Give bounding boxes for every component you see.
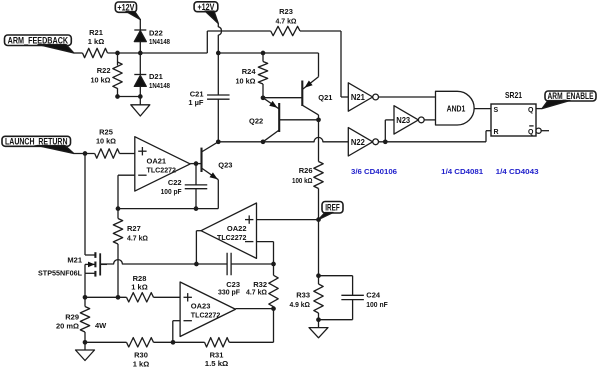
capacitor C23 — [226, 253, 228, 276]
svg-text:4.7 kΩ: 4.7 kΩ — [127, 234, 148, 243]
svg-text:Q23: Q23 — [218, 161, 232, 170]
wire top line to R23 — [207, 30, 270, 32]
wire OA22 output down to gate row — [196, 230, 201, 232]
svg-text:TLC2272: TLC2272 — [191, 311, 221, 320]
wire C21 column (+12V to one-shot node) — [217, 53, 219, 95]
svg-text:4.7 kΩ: 4.7 kΩ — [276, 17, 297, 26]
wire R33 bottom node to ground — [318, 320, 320, 328]
op-amp OA21 — [135, 137, 190, 191]
wire R29 column — [84, 297, 86, 306]
wire R33 leads — [318, 276, 320, 284]
wire C23 to OA22 output node — [231, 263, 273, 265]
svg-text:TLC2272: TLC2272 — [147, 166, 177, 175]
node R29 bottom / R30 left / ground — [83, 340, 88, 345]
flag +12V no.2 — [194, 2, 218, 12]
node LAUNCH_RETURN / M21 drain riser — [83, 151, 88, 156]
svg-text:10 kΩ: 10 kΩ — [96, 137, 116, 146]
svg-text:1N4148: 1N4148 — [149, 81, 170, 90]
svg-text:C24: C24 — [366, 290, 381, 299]
svg-text:N21: N21 — [351, 93, 366, 102]
svg-text:R28: R28 — [133, 274, 147, 283]
node OA23 inverting riser / R31 left — [171, 340, 176, 345]
wire Q22 base to Q21 collector column — [279, 119, 318, 121]
ground under D21 — [131, 105, 150, 116]
diode D22 — [134, 29, 146, 31]
wire IREF node down to R33 top node — [318, 220, 320, 276]
svg-text:+12V: +12V — [197, 2, 214, 12]
wire LAUNCH node riser to M21 drain — [84, 154, 86, 256]
svg-text:R: R — [494, 129, 499, 136]
wire OA23 output row — [236, 308, 274, 310]
node one-shot rail at C21 bottom / Q23 collector — [216, 139, 221, 144]
resistor R29 — [80, 307, 89, 333]
wire R24 node to Q21 base — [263, 97, 302, 99]
wire M21 source column — [84, 273, 86, 297]
inverter N22 — [348, 128, 372, 156]
wire C24 bottom to R33 bottom node — [352, 300, 354, 320]
wire Q21 collector column down to R26 — [318, 115, 320, 162]
svg-text:ARM_ENABLE: ARM_ENABLE — [548, 91, 594, 101]
wire C22 bottom lead — [195, 189, 197, 209]
svg-text:Q: Q — [528, 129, 534, 136]
svg-text:OA21: OA21 — [147, 156, 167, 165]
node D21 anode / ground — [138, 94, 143, 99]
svg-text:1 kΩ: 1 kΩ — [131, 283, 147, 292]
svg-text:ARM_FEEDBACK: ARM_FEEDBACK — [8, 35, 69, 45]
wire Q23 emitter riser — [217, 180, 219, 209]
svg-text:20 mΩ: 20 mΩ — [56, 322, 79, 331]
transistor Q21 — [301, 81, 303, 107]
svg-text:R33: R33 — [296, 290, 310, 299]
node Q21 collector / Q22 base — [316, 117, 321, 122]
resistor R27 — [113, 219, 122, 245]
svg-text:+12V: +12V — [117, 2, 134, 12]
inverter N21 — [348, 83, 372, 111]
capacitor C24 — [341, 294, 364, 296]
resistor R28 — [127, 293, 154, 302]
ground under R29 — [76, 350, 95, 361]
op-amp OA23 — [180, 282, 235, 337]
node R33 top / C24 branch — [316, 273, 321, 278]
svg-text:R24: R24 — [242, 67, 257, 76]
svg-text:10 kΩ: 10 kΩ — [236, 77, 256, 86]
wire C22 top lead — [195, 164, 197, 185]
wire R28 to OA23 + input — [154, 296, 181, 298]
svg-text:4W: 4W — [95, 321, 107, 330]
svg-text:1N4148: 1N4148 — [149, 37, 170, 46]
wire R22 bottom to diode column — [117, 88, 119, 96]
svg-text:1 µF: 1 µF — [188, 98, 204, 107]
diode D21 — [134, 74, 146, 76]
wire R26 to IREF node — [318, 189, 320, 220]
svg-text:STP55NF06L: STP55NF06L — [38, 268, 82, 277]
wire OA23 - input jog — [173, 320, 180, 322]
svg-text:1/4 CD4081: 1/4 CD4081 — [441, 167, 483, 176]
wire OA21 output to Q23 base — [190, 163, 201, 165]
node ARM_FEEDBACK diode clamp — [138, 51, 143, 56]
node OA23 output / R32 bottom / R31 right — [271, 306, 276, 311]
svg-text:LAUNCH_RETURN: LAUNCH_RETURN — [5, 137, 68, 147]
svg-text:N23: N23 — [396, 116, 411, 125]
wire R23 to N21 input corner — [300, 30, 341, 32]
wire R32 column — [273, 264, 275, 275]
node +12V rail at C21 — [216, 51, 221, 56]
svg-text:1 kΩ: 1 kΩ — [88, 37, 104, 46]
wire OA22 - input jog — [257, 241, 274, 243]
resistor R30 — [127, 338, 154, 347]
node IREF junction — [316, 217, 321, 222]
resistor R25 — [95, 149, 120, 158]
svg-text:R31: R31 — [210, 351, 224, 360]
svg-text:C22: C22 — [168, 178, 182, 187]
resistor R23 — [271, 26, 300, 35]
wire N23 output to AND1 — [424, 119, 435, 121]
wire N22 node riser to N23 input — [384, 120, 386, 142]
transistor M21 — [85, 254, 95, 256]
ground under R33 — [309, 328, 328, 338]
svg-text:R26: R26 — [299, 166, 313, 175]
transistor Q23 — [200, 148, 202, 172]
wire N22 output row to SR21 R jog — [379, 141, 486, 143]
wire bottom row R30 — [85, 341, 127, 343]
wire ARM riser to top line — [206, 31, 208, 53]
resistor R22 — [113, 62, 122, 89]
svg-text:R25: R25 — [99, 128, 113, 137]
node M21 gate / OA22 output — [194, 262, 199, 267]
wire bottom row R31 to OA23 output node — [173, 341, 205, 343]
svg-text:M21: M21 — [67, 256, 82, 265]
svg-text:1 kΩ: 1 kΩ — [133, 359, 149, 367]
latch SR21 box — [491, 104, 536, 136]
svg-text:4.7 kΩ: 4.7 kΩ — [246, 287, 267, 296]
svg-text:100 kΩ: 100 kΩ — [292, 176, 313, 185]
wire source row to R28 — [85, 296, 127, 298]
node one-shot rail at Q22 collector — [261, 139, 266, 144]
wire ARM_FEEDBACK input net (y=53) — [74, 52, 83, 54]
svg-text:N22: N22 — [351, 138, 366, 147]
flag LAUNCH_RETURN — [2, 136, 71, 146]
wire Q21 emitter riser — [318, 53, 320, 77]
node R33 bottom / C24 return — [316, 317, 321, 322]
node R22 bottom — [115, 94, 120, 99]
flag ARM_FEEDBACK — [5, 35, 72, 46]
resistor R31 — [205, 338, 230, 347]
and-gate AND1 — [436, 91, 475, 125]
svg-text:Q: Q — [528, 107, 534, 114]
wire R24 column — [262, 53, 264, 62]
svg-text:R30: R30 — [134, 351, 148, 360]
wire R27 bottom column straight through gate-row hop — [117, 244, 119, 297]
capacitor C22 — [185, 184, 208, 186]
svg-text:R29: R29 — [65, 313, 79, 322]
resistor R21 — [83, 48, 108, 57]
svg-text:IREF: IREF — [325, 202, 340, 212]
op-amp OA22 — [201, 203, 257, 258]
wire OA21 - input lead — [118, 174, 135, 176]
node Q23 base / C22 top — [194, 161, 199, 166]
node C22 bottom on feedback row — [194, 206, 199, 211]
svg-text:3/6 CD40106: 3/6 CD40106 — [351, 167, 397, 176]
svg-text:R22: R22 — [97, 66, 111, 75]
node R24 bottom / Q22 emitter / Q21 base — [261, 95, 266, 100]
svg-text:100 pF: 100 pF — [161, 187, 182, 196]
svg-text:TLC2272: TLC2272 — [217, 233, 247, 242]
wire R22 top lead — [117, 53, 119, 65]
resistor R24 — [258, 62, 267, 85]
flag IREF — [322, 202, 343, 214]
resistor R26 — [314, 162, 323, 189]
svg-text:1/4 CD4043: 1/4 CD4043 — [496, 167, 539, 176]
svg-text:OA22: OA22 — [227, 224, 247, 233]
wire feedback row (OA21- / C22 / Q23 emitter) — [118, 208, 218, 210]
wire one-shot rail with hop over Q21 collector column — [218, 137, 348, 141]
svg-text:S: S — [494, 107, 499, 114]
resistor R33 — [314, 284, 323, 313]
svg-text:4.9 kΩ: 4.9 kΩ — [290, 300, 311, 309]
svg-text:R27: R27 — [127, 224, 141, 233]
svg-text:R23: R23 — [279, 7, 293, 16]
wire R33 top node branch to C24 — [319, 275, 353, 277]
svg-text:1.5 kΩ: 1.5 kΩ — [205, 359, 229, 367]
resistor R32 — [269, 275, 278, 306]
node OA21 inverting / R27 top — [116, 206, 121, 211]
flag ARM_ENABLE — [545, 91, 596, 101]
svg-text:100 nF: 100 nF — [366, 300, 388, 309]
wire diode column — [139, 19, 141, 30]
wire R27 column — [117, 209, 119, 219]
capacitor C21 — [207, 94, 230, 96]
node +12V rail at R24 top — [261, 51, 266, 56]
svg-text:Q21: Q21 — [318, 93, 332, 102]
flag +12V no.1 — [115, 2, 136, 12]
svg-text:SR21: SR21 — [505, 91, 522, 100]
svg-text:AND1: AND1 — [447, 105, 466, 114]
wire SR21 Qbar stub — [541, 130, 549, 132]
wire +12V rail (y=53) — [218, 52, 318, 54]
wire AND1 output to SR21 S — [474, 108, 491, 110]
transistor Q22 — [278, 103, 280, 132]
svg-text:R21: R21 — [89, 28, 103, 37]
inverter N23 — [394, 106, 418, 134]
wire SR21 Q output — [536, 108, 542, 110]
wire OA22 + input to IREF node — [257, 219, 319, 221]
node R21/R22 junction — [115, 51, 120, 56]
svg-text:10 kΩ: 10 kΩ — [91, 76, 111, 85]
svg-text:330 pF: 330 pF — [218, 287, 240, 296]
wire +12V no.2 drop with hop over top line — [218, 24, 221, 54]
svg-text:OA23: OA23 — [191, 301, 211, 310]
node N22 output / N23 input — [383, 139, 388, 144]
node M21 source / R29 top / R28 left — [83, 295, 88, 300]
wire M21 gate row to C23 with hop over R27 column — [100, 260, 227, 264]
wire N21 output to AND1 — [379, 96, 436, 98]
node R27 bottom / R28 row — [116, 295, 121, 300]
wire R29 bottom node to ground lead — [84, 342, 86, 350]
node OA22 inverting / R32 top / C23 right — [271, 262, 276, 267]
wire LAUNCH_RETURN net — [74, 153, 95, 155]
svg-text:Q22: Q22 — [249, 116, 263, 125]
